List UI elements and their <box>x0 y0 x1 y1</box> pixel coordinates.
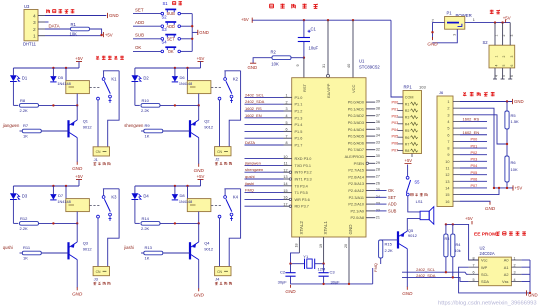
resistor R15 2.2K <box>379 240 393 264</box>
wire LED drop <box>134 186 136 193</box>
wire J6 pin2 to +5V rail <box>460 108 494 188</box>
wire +5V rail (K3 cell) <box>78 180 80 187</box>
svg-text:28: 28 <box>376 168 380 172</box>
svg-text:1K: 1K <box>23 255 28 260</box>
wire collector <box>198 105 200 120</box>
junction dot rail-coil <box>186 67 188 69</box>
power port +5V (sensor) <box>102 32 104 37</box>
svg-text:P2.0/A8: P2.0/A8 <box>350 216 364 220</box>
capacitor C1 10uF <box>298 26 319 50</box>
svg-text:12M: 12M <box>318 266 326 271</box>
svg-text:R3: R3 <box>405 116 410 120</box>
svg-text:P0.4/AD4: P0.4/AD4 <box>348 128 364 132</box>
wire 2402_SDA <box>402 277 469 281</box>
svg-text:jiashi: jiashi <box>244 181 254 186</box>
junction dot R4 top <box>452 223 454 225</box>
svg-text:P00: P00 <box>471 138 478 142</box>
svg-text:GND: GND <box>248 65 258 70</box>
svg-text:qushi: qushi <box>245 174 255 179</box>
wire label to resistor <box>141 252 144 254</box>
junction dot switch pin1 <box>494 21 496 23</box>
wire collector <box>76 223 78 242</box>
svg-text:P07: P07 <box>471 184 478 188</box>
svg-text:R8: R8 <box>405 149 410 153</box>
net label ADD (pin 23) <box>375 203 386 205</box>
svg-text:+5V: +5V <box>405 158 413 163</box>
ground GND (reset) <box>250 62 256 64</box>
svg-text:GND: GND <box>199 30 209 35</box>
resistor network RP1 103 <box>398 85 427 154</box>
net label SET (pin 24) <box>375 196 386 198</box>
wire base <box>41 130 68 132</box>
wire J6 pin5 stub <box>460 127 487 129</box>
resistor R14 2.2K <box>141 216 160 231</box>
terminal block J4 <box>215 267 232 285</box>
capacitor C2 30pF <box>278 270 296 285</box>
svg-text:SDA: SDA <box>481 279 489 284</box>
ground (earth) LCD backlight <box>489 202 491 205</box>
svg-text:R7: R7 <box>405 143 410 147</box>
wire label to resistor <box>20 252 23 254</box>
wire net row pin 8 <box>245 144 284 146</box>
svg-text:12: 12 <box>445 173 449 177</box>
switch S5 <box>406 176 427 196</box>
svg-text:R9: R9 <box>145 123 151 128</box>
svg-text:P00: P00 <box>392 101 399 105</box>
transistor Q2 9012 <box>190 118 214 137</box>
wire contact left to terminal <box>219 100 221 147</box>
svg-text:2: 2 <box>502 56 506 58</box>
svg-text:9: 9 <box>296 64 300 66</box>
wire net row pin 4 <box>245 117 284 119</box>
svg-text:qushi: qushi <box>3 245 13 250</box>
svg-text:Y1: Y1 <box>303 254 309 259</box>
pin 39 P0.0/AD0 <box>348 100 380 105</box>
title relay drivers 继电器驱动 <box>96 56 98 58</box>
svg-text:ADD: ADD <box>135 20 144 25</box>
ground (earth) Q2 emitter <box>198 164 200 167</box>
power port GND (LCD) <box>512 99 514 104</box>
svg-text:SET: SET <box>167 36 175 41</box>
wire P1 pin2 to ground <box>433 23 445 39</box>
wire P1 pin1 to +5V <box>465 22 510 24</box>
power port GND (buttons) <box>197 30 199 35</box>
svg-text:S2: S2 <box>162 15 168 20</box>
svg-text:P05: P05 <box>471 171 478 175</box>
junction dot rail-coil <box>186 185 188 187</box>
svg-text:INT1 P3.3: INT1 P3.3 <box>295 178 312 182</box>
svg-text:K2: K2 <box>233 77 239 82</box>
svg-text:30pF: 30pF <box>278 280 288 285</box>
wire pin3 stub <box>45 21 49 23</box>
wire pin1 to +5V junction <box>45 35 102 37</box>
pin 36 P0.3/AD3 <box>348 120 380 125</box>
junction dot crystal left <box>289 263 291 265</box>
svg-text:GND: GND <box>72 292 83 297</box>
pin 8 P1.7 <box>284 141 303 147</box>
wire EEPROM +5V rail <box>446 224 479 260</box>
svg-text:R4: R4 <box>456 243 461 247</box>
wire +5V rail (LCD) <box>494 187 513 189</box>
svg-text:CN: CN <box>96 150 101 154</box>
pin 27 P2.6/A14 <box>348 175 380 180</box>
wire emitter to ground <box>76 260 78 288</box>
wire junction row <box>160 104 199 106</box>
wire net row pin 10 <box>245 158 284 160</box>
wire switch S3 to bus <box>181 38 193 40</box>
wire switch S4 to bus <box>181 50 193 52</box>
svg-text:GND: GND <box>285 289 296 294</box>
ground (earth) buzzer <box>406 287 408 290</box>
svg-text:GND: GND <box>194 168 205 173</box>
svg-text:D3: D3 <box>22 193 28 198</box>
wire C1 top lead <box>303 20 305 37</box>
wire SUB to switch S3 <box>133 38 161 40</box>
wire R15 to Q5 base <box>381 239 398 241</box>
LED D4 <box>132 193 150 199</box>
wire Q5 emitter to ground <box>406 249 408 287</box>
svg-text:4: 4 <box>447 120 449 124</box>
svg-text:GND: GND <box>348 224 353 235</box>
svg-text:RD P3.7: RD P3.7 <box>295 205 309 209</box>
wire C1 bottom lead <box>303 42 305 58</box>
relay contacts K2 <box>211 71 241 103</box>
pin 26 P2.5/A13 <box>348 181 380 186</box>
transistor Q4 9012 <box>190 240 214 259</box>
svg-text:9012: 9012 <box>204 124 214 129</box>
svg-text:10K: 10K <box>511 167 518 172</box>
pin 11 TXD P3.1 <box>284 162 311 168</box>
pin 17 RD P3.7 <box>283 202 308 208</box>
svg-text:1K: 1K <box>23 133 28 138</box>
pin 14 T0 P3.4 <box>283 182 307 188</box>
svg-text:14: 14 <box>445 186 449 190</box>
svg-text:R5: R5 <box>405 129 410 133</box>
svg-text:R11: R11 <box>23 245 31 250</box>
title MCU system 单片机系统 <box>270 3 274 5</box>
svg-text:Vcc: Vcc <box>481 258 488 263</box>
svg-text:R10: R10 <box>142 98 150 103</box>
wire label to resistor <box>20 130 23 132</box>
svg-text:SUB: SUB <box>388 208 397 213</box>
pin 34 P0.5/AD5 <box>348 134 380 139</box>
wire diode drop <box>52 186 54 194</box>
relay coil K1 <box>66 81 90 94</box>
svg-text:P03: P03 <box>392 121 399 125</box>
LED D3 <box>10 193 28 199</box>
pin 4 P1.3 <box>284 114 303 120</box>
resistor R7 1K <box>22 123 41 139</box>
svg-text:ALE/PROG: ALE/PROG <box>345 155 364 159</box>
wire button ground bus <box>191 14 193 52</box>
wire net row pin 12 <box>245 171 284 173</box>
junction dot rail-diode <box>174 67 176 69</box>
svg-text:P04: P04 <box>471 164 478 168</box>
svg-text:1K: 1K <box>145 255 150 260</box>
svg-text:103: 103 <box>419 85 426 90</box>
title sensor interface 传感器接口 <box>46 9 48 13</box>
junction dot rail VCC <box>352 19 354 21</box>
pin 28 P2.7/A15 <box>348 168 380 173</box>
wire contact right to terminal <box>229 71 240 147</box>
svg-text:1N4148: 1N4148 <box>57 82 70 86</box>
push button S2 (ADD) <box>161 22 181 29</box>
wire switch S1 to bus <box>181 13 193 15</box>
svg-text:PSEN: PSEN <box>354 162 365 166</box>
pin 7 P1.6 <box>284 134 303 140</box>
wire net row pin 1 <box>245 96 284 98</box>
junction dot rail-coil <box>65 185 67 187</box>
resistor R10 2.2K <box>141 98 160 113</box>
pin 22 P2.1/A9 <box>350 209 379 214</box>
svg-text:30: 30 <box>376 154 380 158</box>
svg-text:3: 3 <box>447 113 449 117</box>
svg-text:2: 2 <box>33 27 36 33</box>
pin 12 INT0 P3.2 <box>283 168 311 174</box>
svg-text:GND: GND <box>194 293 205 298</box>
wire pin 18 XTAL2 <box>298 237 300 253</box>
svg-text:WP: WP <box>481 265 488 270</box>
svg-text:GND: GND <box>528 292 538 297</box>
wire bus to GND port <box>192 31 197 33</box>
wire contact left to terminal <box>97 100 99 147</box>
title buttons 按键 <box>173 1 176 3</box>
wire P1 pin3 to ground <box>433 29 458 43</box>
svg-text:Q2: Q2 <box>204 118 210 123</box>
svg-text:P2.2/A10: P2.2/A10 <box>348 203 364 207</box>
svg-text:P2.5/A13: P2.5/A13 <box>348 182 364 186</box>
wire net row pin 15 <box>245 192 284 194</box>
wire net row pin 16 <box>245 198 284 200</box>
pin 16 WR P3.6 <box>283 196 309 202</box>
junction dot C3 rail <box>322 283 324 285</box>
resistor R2 10K <box>271 49 292 66</box>
speaker LS1 <box>416 199 434 224</box>
svg-text:OK: OK <box>135 45 141 50</box>
wire base <box>41 252 68 254</box>
svg-text:P04: P04 <box>392 128 399 132</box>
wire R2 right to RST <box>291 57 304 59</box>
diode D6 1N4148 <box>172 75 193 86</box>
wire LED to resistor <box>134 82 136 106</box>
svg-text:FMQ: FMQ <box>245 188 254 193</box>
relay coil K2 <box>187 81 211 94</box>
svg-text:R6: R6 <box>511 160 517 165</box>
junction dot rail EA <box>327 19 329 21</box>
svg-text:R5: R5 <box>511 113 517 118</box>
wire diode drop <box>174 68 176 76</box>
svg-text:11: 11 <box>446 167 450 171</box>
svg-text:U3: U3 <box>24 4 30 9</box>
svg-text:3: 3 <box>453 34 457 36</box>
svg-text:P0.5/AD5: P0.5/AD5 <box>348 135 364 139</box>
svg-text:9012: 9012 <box>204 246 214 251</box>
svg-text:2402_SCL: 2402_SCL <box>245 92 265 97</box>
svg-text:P06: P06 <box>392 142 399 146</box>
svg-text:RST: RST <box>302 83 307 92</box>
wire +5V rail (K2 cell) <box>200 62 202 69</box>
pin 1 P1.0 <box>284 94 303 100</box>
svg-text:OK: OK <box>388 188 394 193</box>
svg-text:P1.2: P1.2 <box>295 110 303 114</box>
svg-text:ADD: ADD <box>166 24 175 29</box>
svg-text:1602_EN: 1602_EN <box>245 113 262 118</box>
wire emitter to ground <box>198 138 200 164</box>
svg-text:D7: D7 <box>58 193 64 198</box>
svg-text:21: 21 <box>376 215 380 219</box>
wire J6 pin8 stub <box>460 147 487 149</box>
junction dot pin15 rail <box>498 187 500 189</box>
svg-text:A1: A1 <box>504 265 509 270</box>
svg-text:38: 38 <box>376 107 380 111</box>
svg-text:1: 1 <box>33 34 36 40</box>
pin 32 P0.7/AD7 <box>348 147 380 152</box>
junction dot bus row3 <box>191 38 193 40</box>
wire LED drop <box>12 68 14 75</box>
svg-text:3: 3 <box>510 35 514 37</box>
eeprom U2 24C02A <box>469 246 522 286</box>
wire RST pin drop <box>303 58 305 78</box>
svg-text:R1: R1 <box>405 102 410 106</box>
svg-text:K4: K4 <box>233 195 239 200</box>
wire U2 right bus <box>521 259 530 261</box>
wire net row pin 3 <box>245 110 284 112</box>
svg-text:https://blog.csdn.net/weixin_3: https://blog.csdn.net/weixin_39666993 <box>438 301 537 307</box>
pin 35 P0.4/AD4 <box>348 127 380 132</box>
svg-text:P07: P07 <box>392 148 399 152</box>
wire EA pin drop <box>327 20 329 74</box>
switch S2 (power) <box>483 23 515 79</box>
relay coil K4 <box>187 199 211 212</box>
junction dot sensor +5V <box>100 34 102 36</box>
junction dot diode bottom <box>52 104 54 106</box>
svg-text:XTAL2: XTAL2 <box>299 221 304 235</box>
wire coil bottom <box>76 94 78 106</box>
pin 2 P1.1 <box>284 100 303 106</box>
wire +5V rail <box>252 19 391 21</box>
pin 3 P1.2 <box>284 107 303 113</box>
svg-text:A0: A0 <box>504 258 510 263</box>
ground (earth) Q3 emitter <box>76 287 78 290</box>
svg-text:P0.7/AD7: P0.7/AD7 <box>348 148 364 152</box>
pin 24 P2.3/A11 <box>349 195 380 200</box>
relay coil K3 <box>66 199 90 212</box>
junction dot bus row2 <box>191 25 193 27</box>
junction dot crystal right <box>322 263 324 265</box>
connector J6 (LCD) <box>437 90 460 206</box>
LED D2 <box>132 75 150 81</box>
svg-text:10: 10 <box>445 160 449 164</box>
svg-text:P03: P03 <box>471 158 478 162</box>
svg-text:R6: R6 <box>405 136 410 140</box>
wire pin 19 XTAL1 <box>323 237 325 264</box>
svg-text:Q1: Q1 <box>83 118 89 123</box>
wire label to resistor <box>141 130 144 132</box>
power port +5V (MCU rail) <box>251 18 253 23</box>
svg-text:S2: S2 <box>483 40 489 45</box>
svg-text:R3: R3 <box>445 237 450 241</box>
wire contact left to terminal <box>219 218 221 267</box>
svg-text:16: 16 <box>445 200 449 204</box>
svg-text:2402_SCL: 2402_SCL <box>416 267 436 272</box>
svg-text:Q4: Q4 <box>204 240 210 245</box>
svg-text:13: 13 <box>445 180 449 184</box>
svg-text:2.2K: 2.2K <box>141 226 150 231</box>
wire emitter to ground <box>76 138 78 162</box>
svg-text:5: 5 <box>502 65 506 67</box>
wire speaker to Q5 collector <box>407 219 420 232</box>
svg-text:P02: P02 <box>471 151 478 155</box>
wire coil drop <box>187 68 189 81</box>
crystal Y1 12M <box>303 254 325 271</box>
junction dot rail-coil <box>65 67 67 69</box>
svg-text:P1.1: P1.1 <box>295 103 303 107</box>
svg-text:P01: P01 <box>392 108 399 112</box>
wire switch S2 to bus <box>181 25 193 27</box>
svg-text:6: 6 <box>510 75 514 77</box>
junction dot RST node <box>303 57 305 59</box>
svg-text:GND: GND <box>514 99 524 104</box>
svg-text:+5V: +5V <box>197 174 205 179</box>
svg-text:P2.3/A11: P2.3/A11 <box>349 196 364 200</box>
svg-text:1602_EN: 1602_EN <box>463 130 480 135</box>
svg-text:S5: S5 <box>414 179 420 184</box>
microcontroller U1 STC89C52 <box>292 59 381 237</box>
wire OK to switch S4 <box>133 50 161 52</box>
wire S5 to speaker <box>408 196 420 212</box>
svg-text:P0.0/AD0: P0.0/AD0 <box>348 101 364 105</box>
resistor R4 10k <box>445 224 461 277</box>
svg-text:1N4148: 1N4148 <box>179 200 192 204</box>
svg-text:1.5K: 1.5K <box>511 119 520 124</box>
svg-text:SET: SET <box>135 7 144 12</box>
wire C2 top lead <box>290 264 292 273</box>
power port +5V (K4 cell) <box>198 179 204 181</box>
junction dot R4 SDA <box>452 276 454 278</box>
power port GND (EEPROM) <box>526 290 528 295</box>
svg-text:1602_RS: 1602_RS <box>245 106 262 111</box>
relay contacts K4 <box>211 189 241 221</box>
svg-text:P2.6/A14: P2.6/A14 <box>348 175 364 179</box>
svg-text:SET: SET <box>388 195 396 200</box>
svg-text:R15: R15 <box>385 241 393 246</box>
resistor R13 1K <box>144 245 163 261</box>
net label OK (pin 25) <box>375 190 386 192</box>
svg-text:GND: GND <box>109 13 119 18</box>
svg-text:LS1: LS1 <box>416 199 424 204</box>
svg-text:shengwen: shengwen <box>245 167 263 172</box>
terminal block J1 <box>93 147 110 165</box>
ground (earth) Q1 emitter <box>76 162 78 165</box>
svg-text:CN: CN <box>96 270 101 274</box>
wire J6 pin3 to divider <box>460 115 507 144</box>
junction dot rail-diode <box>52 185 54 187</box>
junction dot coil bottom <box>76 104 78 106</box>
svg-text:R12: R12 <box>20 216 28 221</box>
wire net row pin 7 <box>245 137 284 139</box>
resistor R6 10K <box>505 156 518 188</box>
svg-text:1: 1 <box>447 100 449 104</box>
ground (earth) Q4 emitter <box>198 288 200 291</box>
pin 29 PSEN <box>354 161 380 166</box>
svg-text:6: 6 <box>447 133 449 137</box>
wire 2402_SCL <box>402 272 469 274</box>
resistor R11 1K <box>22 245 41 261</box>
power port +5V (K3 cell) <box>76 179 82 181</box>
wire XTAL2 to crystal <box>291 253 305 264</box>
resistor R5 1K <box>505 102 519 157</box>
wire J6 pin14 stub <box>460 187 487 189</box>
